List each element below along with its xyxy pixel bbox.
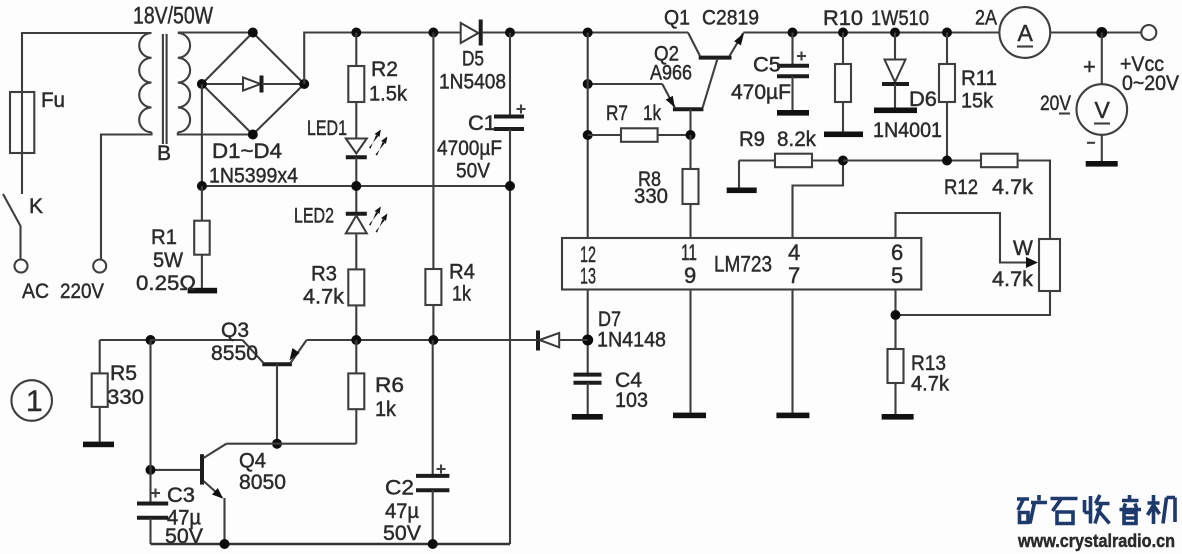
- node R11 bottom: [942, 156, 952, 166]
- wire row to Q3: [151, 339, 243, 341]
- svg-text:0.25Ω: 0.25Ω: [136, 272, 196, 295]
- node Q3 base row: [272, 439, 282, 449]
- bottom rail wire: [151, 543, 511, 546]
- wire C1 down to bottom rail: [509, 186, 511, 544]
- svg-text:C2: C2: [385, 477, 414, 500]
- node rail C5: [788, 28, 798, 38]
- wire pin4 elbow: [793, 161, 844, 238]
- svg-text:+: +: [1083, 54, 1096, 79]
- svg-text:Q3: Q3: [221, 319, 249, 342]
- transformer secondary winding: [178, 33, 190, 132]
- node rail R4: [428, 28, 438, 38]
- transformer core: [163, 34, 167, 144]
- svg-text:R2: R2: [371, 58, 398, 81]
- svg-text:A: A: [1018, 20, 1034, 46]
- node bridge left: [197, 79, 207, 89]
- svg-text:D1~D4: D1~D4: [212, 140, 282, 163]
- svg-text:9: 9: [684, 263, 696, 288]
- resistor R3: [348, 233, 364, 340]
- ground R10: [824, 132, 863, 138]
- svg-text:Fu: Fu: [41, 89, 65, 112]
- wire R5 row: [100, 339, 151, 341]
- svg-text:R7: R7: [606, 102, 628, 125]
- wire LED1 to minus rail: [355, 157, 357, 214]
- ground C5: [777, 110, 809, 116]
- svg-text:A966: A966: [650, 62, 692, 85]
- terminal 220V: [93, 260, 106, 273]
- svg-text:8.2k: 8.2k: [777, 128, 816, 151]
- svg-text:11: 11: [681, 240, 697, 265]
- wire top rail D5 to Q1 collector: [482, 31, 688, 33]
- svg-text:20V: 20V: [1040, 92, 1071, 115]
- wire pin9 to ground: [689, 290, 691, 413]
- svg-text:15k: 15k: [961, 90, 993, 113]
- svg-text:1N5399x4: 1N5399x4: [209, 165, 298, 188]
- wire pin13 column: [587, 290, 589, 375]
- svg-text:Q4: Q4: [239, 450, 266, 473]
- node R9 out: [838, 156, 848, 166]
- LED LED2: [346, 207, 388, 234]
- svg-text:1W510: 1W510: [871, 7, 929, 30]
- svg-text:R6: R6: [375, 374, 404, 397]
- switch K: [3, 153, 22, 260]
- node rail R10: [838, 28, 848, 38]
- wire top rail Q1 emitter to ammeter: [743, 31, 999, 33]
- node minus rail R1: [197, 181, 207, 191]
- label 20V underline: [1059, 112, 1070, 114]
- svg-text:4700µF: 4700µF: [437, 137, 502, 160]
- svg-text:220V: 220V: [60, 280, 104, 303]
- svg-text:50V: 50V: [456, 160, 490, 183]
- svg-text:47µ: 47µ: [385, 500, 419, 523]
- svg-text:R1: R1: [151, 226, 177, 249]
- svg-text:5W: 5W: [153, 249, 183, 272]
- svg-text:LED1: LED1: [307, 117, 347, 140]
- svg-text:1.5k: 1.5k: [369, 83, 407, 106]
- node rail R11: [942, 28, 952, 38]
- svg-text:AC: AC: [22, 280, 49, 303]
- node rail C1: [505, 28, 515, 38]
- svg-text:4.7k: 4.7k: [911, 373, 949, 396]
- transistor Q1: [688, 33, 744, 58]
- node bridge top: [248, 28, 258, 38]
- node Q4 base: [146, 465, 156, 475]
- wire pin7 to ground: [791, 290, 793, 413]
- terminal AC: [15, 260, 28, 273]
- node R8 top: [686, 130, 696, 140]
- transistor Q4: [151, 444, 227, 544]
- svg-text:8550: 8550: [211, 342, 258, 365]
- svg-text:4.7k: 4.7k: [992, 268, 1034, 291]
- resistor R8: [683, 135, 699, 238]
- node pin5: [891, 310, 901, 320]
- bridge rectifier D1~D4 diamond: [202, 33, 304, 135]
- resistor R10: [835, 33, 851, 132]
- svg-text:LED2: LED2: [294, 205, 334, 228]
- svg-text:2A: 2A: [975, 7, 997, 30]
- capacitor C2: [416, 340, 449, 544]
- wire C3 column: [149, 340, 151, 504]
- svg-text:470µF: 470µF: [731, 81, 791, 104]
- node minus rail LED2: [351, 181, 361, 191]
- ground R5: [83, 442, 114, 448]
- resistor R2: [348, 33, 364, 139]
- svg-text:1k: 1k: [643, 102, 661, 125]
- svg-text:Q1: Q1: [664, 7, 690, 30]
- svg-text:C2819: C2819: [702, 7, 759, 30]
- resistor R5: [92, 340, 108, 442]
- node x587 y135: [583, 130, 593, 140]
- svg-text:1k: 1k: [375, 398, 396, 421]
- ground D6: [874, 108, 917, 114]
- diode D7: [538, 331, 588, 351]
- transistor Q2: [588, 59, 718, 135]
- terminal +Vcc: [1141, 25, 1156, 40]
- svg-text:LM723: LM723: [714, 252, 772, 277]
- node rail x587: [583, 28, 593, 38]
- circled figure number 1: [11, 380, 52, 421]
- node output junction: [1096, 27, 1107, 38]
- svg-text:13: 13: [580, 264, 596, 289]
- svg-text:1: 1: [26, 385, 43, 418]
- wire secondary top to bridge: [178, 31, 253, 33]
- node rail D6: [890, 28, 900, 38]
- svg-text:50V: 50V: [383, 522, 421, 545]
- resistor R1: [194, 186, 210, 288]
- LED LED1: [346, 130, 388, 158]
- fuse Fu: [10, 33, 152, 153]
- ground voltmeter: [1086, 161, 1118, 167]
- wire bridge right node to top rail: [304, 33, 461, 85]
- svg-text:K: K: [29, 195, 43, 218]
- resistor R7: [588, 128, 691, 142]
- wire pin5 column: [894, 290, 896, 350]
- voltmeter V 20V: [1077, 33, 1128, 162]
- svg-text:R11: R11: [961, 67, 997, 90]
- resistor R9: [739, 154, 843, 168]
- svg-text:4: 4: [788, 240, 800, 265]
- wire ammeter to +Vcc terminal: [1050, 31, 1141, 33]
- capacitor C4: [574, 375, 602, 414]
- svg-text:5: 5: [891, 263, 903, 288]
- svg-text:6: 6: [891, 240, 903, 265]
- svg-text:V: V: [1095, 97, 1111, 123]
- node bridge right: [299, 79, 309, 89]
- svg-text:7: 7: [788, 263, 800, 288]
- svg-text:4.7k: 4.7k: [303, 286, 345, 309]
- capacitor C3: [137, 489, 168, 545]
- svg-text:1N4001: 1N4001: [873, 119, 942, 142]
- minus rail wire: [202, 84, 510, 186]
- node row C3: [146, 335, 156, 345]
- diode D6: [882, 33, 909, 108]
- svg-text:R5: R5: [110, 362, 137, 385]
- node bottom C2: [428, 539, 438, 549]
- wire pot bottom to pin5: [896, 291, 1051, 315]
- IC U1 LM723 box: [562, 238, 921, 290]
- node rail R2: [351, 28, 361, 38]
- wire Q4 collector row: [226, 443, 356, 445]
- svg-text:R3: R3: [311, 263, 337, 286]
- node minus rail C1: [505, 181, 515, 191]
- ammeter A 2A: [999, 7, 1050, 58]
- node row R3R6: [351, 335, 361, 345]
- potentiometer W: [896, 213, 1061, 291]
- wire x587 column to IC: [587, 33, 589, 239]
- svg-text:R12: R12: [944, 176, 978, 199]
- wire R9 to R12 rail: [843, 159, 981, 161]
- svg-text:C1: C1: [468, 112, 496, 135]
- svg-text:W: W: [1013, 237, 1033, 260]
- svg-text:0~20V: 0~20V: [1122, 72, 1179, 95]
- ground R13: [882, 414, 914, 420]
- svg-text:B: B: [157, 142, 171, 165]
- svg-text:R4: R4: [449, 261, 475, 284]
- svg-text:8050: 8050: [239, 471, 286, 494]
- svg-text:C3: C3: [167, 484, 195, 507]
- node x587 y84: [583, 79, 593, 89]
- resistor R4: [425, 33, 441, 341]
- svg-text:330: 330: [107, 386, 144, 409]
- svg-text:1N5408: 1N5408: [439, 71, 506, 94]
- wire Q3 emitter row: [307, 339, 537, 341]
- svg-text:103: 103: [615, 389, 648, 412]
- transformer T primary winding: [139, 33, 151, 132]
- wire secondary bottom to bridge: [178, 132, 253, 134]
- ground R1: [188, 288, 218, 294]
- node bridge bottom: [248, 130, 258, 140]
- svg-text:D6: D6: [909, 88, 937, 111]
- node bottom Q4: [220, 539, 230, 549]
- svg-text:4.7k: 4.7k: [992, 176, 1034, 199]
- node row R4C2: [428, 335, 438, 345]
- svg-text:www.crystalradio.cn: www.crystalradio.cn: [1017, 531, 1175, 551]
- svg-text:1N4148: 1N4148: [597, 329, 666, 352]
- svg-text:D5: D5: [462, 48, 484, 71]
- capacitor C1: [494, 33, 526, 187]
- svg-text:330: 330: [634, 185, 668, 208]
- svg-text:R9: R9: [739, 128, 765, 151]
- bridge inner diode: [202, 76, 304, 93]
- watermark logo kuangshi shouyinji: [1017, 495, 1175, 524]
- ground pin9: [673, 413, 706, 419]
- ground R9: [727, 161, 757, 194]
- resistor R6: [348, 340, 364, 444]
- svg-text:18V/50W: 18V/50W: [133, 3, 213, 30]
- wire primary bottom to 220V terminal: [101, 132, 152, 259]
- ground C4: [572, 414, 603, 420]
- ground pin7: [776, 413, 809, 419]
- svg-text:1k: 1k: [452, 283, 471, 306]
- transistor Q3: [243, 340, 307, 444]
- capacitor C5: [777, 33, 809, 111]
- node D7 C4: [582, 335, 593, 346]
- svg-text:R10: R10: [823, 7, 863, 30]
- diode D5: [461, 20, 481, 46]
- svg-text:C5: C5: [753, 54, 781, 77]
- resistor R12: [981, 154, 1050, 239]
- resistor R13: [888, 349, 904, 414]
- resistor R11: [939, 33, 955, 161]
